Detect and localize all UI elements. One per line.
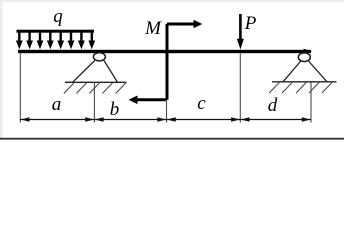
extension line at x=240.3 (239, 54, 241, 123)
force P arrow (237, 14, 244, 50)
label P (243, 13, 258, 35)
load arrow 6 (70, 31, 72, 42)
label c (192, 93, 211, 115)
label q (48, 6, 68, 28)
label d (263, 95, 282, 117)
moment bottom arrow (136, 98, 167, 101)
roller support right: hatching (269, 82, 332, 93)
pin support left: ground line (65, 81, 127, 83)
dimension line d (240, 117, 311, 122)
load arrow 3 (39, 31, 41, 42)
load arrow 2 (28, 31, 30, 42)
distributed load q: top bar (17, 30, 95, 33)
extension line at x=166.5 (166, 100, 168, 123)
load arrow 5 (60, 31, 62, 42)
roller support right: circle (298, 53, 310, 62)
dimension line b (94, 117, 166, 122)
load arrow 8 (91, 31, 93, 42)
page edge top strip (0, 0, 344, 2)
distributed load arrows (16, 31, 95, 49)
dimension line a (20, 117, 94, 122)
moment vertical line (166, 24, 169, 100)
label a (47, 94, 66, 116)
load arrow 4 (49, 31, 51, 42)
page edge left strip (0, 0, 3, 140)
extension line at x=20 (19, 54, 21, 123)
roller support right: triangle legs (283, 61, 327, 82)
pin support left: triangle legs (73, 61, 118, 83)
roller support right: ground line (272, 81, 337, 83)
moment M couple (129, 20, 203, 104)
beam right end blob (304, 49, 313, 54)
extension line at x=311 (310, 83, 312, 123)
label M (141, 18, 165, 40)
label b (105, 99, 124, 121)
beam (18, 50, 311, 53)
dimension line c (167, 117, 241, 122)
load arrow 1 (18, 31, 20, 42)
page bottom rule (0, 138, 344, 140)
load arrow 7 (80, 31, 82, 42)
pin support left: hatching (64, 83, 126, 94)
moment top arrow (167, 23, 195, 26)
extension line at x=94.4 (93, 83, 95, 123)
pin support left: circle (93, 53, 105, 61)
